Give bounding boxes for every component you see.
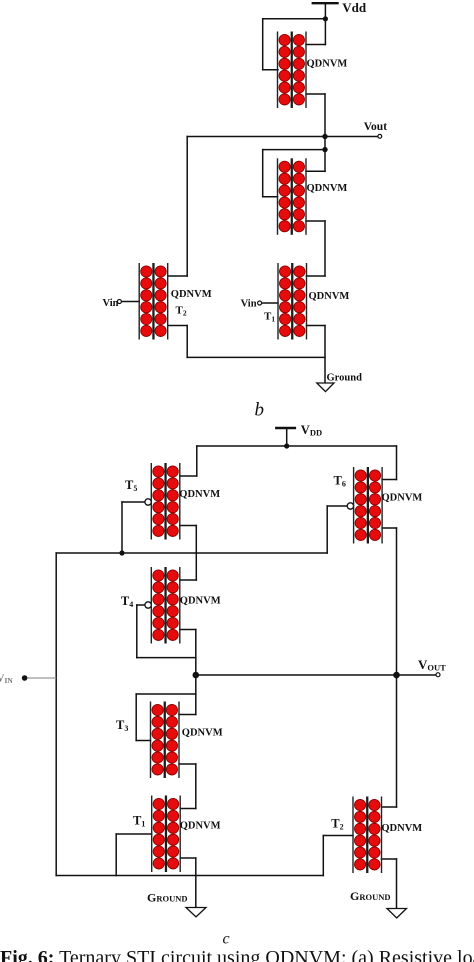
wire VDD drop — [286, 428, 288, 446]
wire output line — [196, 674, 397, 676]
gate bubble T4 — [145, 602, 151, 608]
svg-text:QDNVM: QDNVM — [307, 59, 348, 70]
svg-text:Vout: Vout — [364, 121, 387, 133]
svg-text:Vdd: Vdd — [342, 0, 367, 15]
wire mid gate loop left — [262, 150, 264, 197]
wire top rail — [197, 445, 397, 447]
wire mid drain drop — [324, 150, 326, 172]
node Vout junction — [322, 134, 327, 139]
node output junction right — [393, 672, 400, 679]
QDNVM transistor T2 (c) — [353, 797, 382, 874]
wire T4 drain stub — [180, 579, 197, 581]
wire T3 loop top — [136, 693, 196, 695]
wire T5 source stub — [180, 525, 197, 527]
wire mid gate loop top — [263, 149, 325, 151]
wire T1 drain stub (c) — [180, 808, 196, 810]
wire T3 source to T1 drain — [195, 764, 197, 809]
QDNVM transistor load (top) — [278, 32, 307, 109]
svg-text:T5: T5 — [125, 478, 137, 493]
wire T3 gate drop — [135, 694, 137, 741]
wire T1 gate stub (c) — [116, 833, 152, 835]
wire T1 drain stub — [307, 275, 326, 277]
terminal VIN — [22, 675, 28, 681]
node junction below Vdd — [323, 16, 328, 21]
svg-text:QDNVM: QDNVM — [307, 183, 348, 194]
terminal Vin T2 — [117, 300, 121, 304]
wire T2 drain stub (c) — [382, 806, 397, 808]
node T5 gate junction — [119, 550, 124, 555]
wire T4 source stub — [180, 629, 196, 631]
wire T6 drain stub — [382, 479, 396, 481]
wire T5 gate stub — [122, 501, 145, 503]
terminal Vout — [378, 134, 382, 138]
QDNVM transistor T5 — [151, 463, 180, 540]
svg-text:VOUT: VOUT — [418, 657, 446, 673]
wire rail to T5 drain — [196, 446, 198, 476]
QDNVM transistor T3 — [151, 702, 180, 779]
input bus bottom — [56, 875, 323, 877]
wire T1 source to ground (crosses input bus) — [195, 858, 197, 908]
wire T4 source to output node — [195, 630, 197, 676]
wire load gate loop top — [263, 18, 326, 20]
wire T5 gate drop — [121, 502, 123, 553]
svg-text:T3: T3 — [116, 718, 128, 733]
wire T5 source to T4 drain (crosses input bus) — [195, 526, 197, 581]
QDNVM transistor T1 (b) — [278, 263, 307, 340]
svg-text:T2: T2 — [176, 305, 187, 318]
svg-text:T6: T6 — [334, 474, 346, 489]
wire T3 drain stub — [179, 714, 196, 716]
wire mid gate stub — [263, 196, 278, 198]
wire feedback vertical (Vout to T2 drain) — [186, 137, 188, 277]
wire T3 gate stub — [136, 740, 150, 742]
wire T2 source drop — [186, 326, 188, 358]
wire load gate stub — [263, 69, 278, 71]
svg-text:Ground: Ground — [327, 373, 363, 384]
wire rail to T6 drain — [396, 446, 398, 480]
node VDD junction (c) — [284, 443, 289, 448]
wire T5 drain stub — [180, 475, 197, 477]
svg-text:GROUND: GROUND — [147, 891, 188, 905]
svg-text:T1: T1 — [264, 311, 275, 324]
svg-text:QDNVM: QDNVM — [381, 823, 422, 834]
svg-text:QDNVM: QDNVM — [171, 289, 212, 300]
wire mid source to T1 drain — [324, 221, 326, 276]
wire bottom ground run — [187, 356, 325, 358]
wire T1 gate drop (c) — [115, 834, 117, 876]
wire T2 source stub — [169, 325, 188, 327]
svg-text:VDD: VDD — [301, 423, 322, 438]
svg-text:b: b — [255, 400, 265, 421]
ground symbol b — [317, 383, 334, 392]
QDNVM transistor T4 — [151, 567, 180, 644]
svg-text:QDNVM: QDNVM — [180, 596, 221, 607]
wire T3 source stub — [179, 763, 196, 765]
wire mid source stub — [306, 220, 325, 222]
wire left input vertical — [55, 553, 57, 876]
svg-text:Vin: Vin — [103, 298, 119, 309]
wire load drain drop — [324, 19, 326, 45]
QDNVM transistor T6 — [354, 467, 383, 544]
svg-text:T1: T1 — [133, 814, 145, 829]
wire T6 gate stub — [327, 505, 347, 507]
wire T1 source stub (c) — [180, 857, 196, 859]
wire Vdd drop to junction — [324, 3, 326, 19]
node mid gate junction — [322, 147, 327, 152]
wire T2 gate rise (c) — [322, 836, 324, 876]
wire VIN stub — [27, 677, 56, 679]
wire right rail T6 source to T2 drain — [396, 528, 398, 807]
svg-text:Vin: Vin — [241, 299, 257, 310]
svg-text:c: c — [223, 931, 230, 948]
gate bubble T5 — [145, 499, 151, 505]
QDNVM transistor middle — [278, 158, 307, 235]
wire T2 source stub (c) — [382, 858, 397, 860]
wire T6 source stub — [382, 527, 396, 529]
power rail Vdd bar — [313, 2, 338, 4]
wire T1 source to ground — [324, 326, 326, 384]
wire T4 gate to output node — [137, 657, 196, 659]
svg-text:T4: T4 — [121, 594, 133, 609]
wire load source stub — [306, 93, 325, 95]
wire Vin stub T2 — [121, 301, 139, 303]
QDNVM transistor T2 (b) — [139, 263, 168, 340]
svg-text:QDNVM: QDNVM — [309, 291, 350, 302]
wire T2 drain stub — [169, 275, 188, 277]
svg-text:GROUND: GROUND — [350, 889, 391, 903]
wire load gate loop left — [262, 19, 264, 70]
svg-text:QDNVM: QDNVM — [182, 728, 223, 739]
wire T4 gate drop — [136, 605, 138, 658]
svg-text:QDNVM: QDNVM — [179, 489, 220, 500]
wire Vin stub T1 — [262, 302, 278, 304]
svg-text:T2: T2 — [331, 817, 343, 832]
input bus top — [56, 552, 327, 554]
terminal Vin T1 — [258, 301, 262, 305]
wire Vout line — [187, 136, 378, 138]
wire load drain stub — [306, 44, 325, 46]
wire T2 gate stub (c) — [323, 835, 353, 837]
power rail VDD bar (c) — [276, 427, 295, 429]
wire T6 gate drop — [326, 506, 328, 553]
svg-text:QDNVM: QDNVM — [180, 821, 221, 832]
ground symbol right (c) — [387, 909, 407, 919]
wire T1 source stub — [307, 325, 326, 327]
wire Vout stub (c) — [397, 674, 437, 676]
node output junction left — [193, 672, 200, 679]
wire T4 gate stub — [137, 604, 145, 606]
wire Vout node link — [324, 137, 326, 150]
wire load source to Vout node — [324, 94, 326, 137]
terminal VOUT (c) — [436, 673, 440, 677]
ground symbol left (c) — [186, 908, 206, 917]
wire output to T3 loop — [195, 675, 197, 694]
svg-text:QDNVM: QDNVM — [382, 493, 423, 504]
gate bubble T6 — [347, 503, 353, 509]
QDNVM transistor T1 (c) — [152, 796, 181, 873]
wire T3 drain drop — [195, 694, 197, 715]
wire T2 source to ground (c) — [396, 859, 398, 909]
wire mid drain stub — [306, 170, 325, 172]
svg-text:VIN: VIN — [0, 673, 13, 686]
